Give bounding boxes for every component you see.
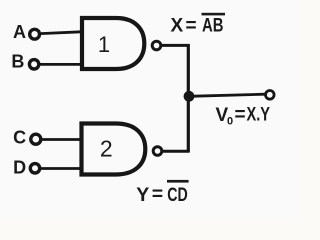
label X = AB-bar [171, 13, 226, 37]
wire A [40, 32, 81, 34]
svg-text:0: 0 [227, 116, 233, 128]
NAND gate U1 body [82, 18, 144, 69]
input terminal B [29, 60, 38, 69]
svg-text:CD: CD [167, 184, 188, 206]
label V0 = X.Y [216, 104, 271, 127]
NAND gate U2 body [82, 124, 146, 175]
output bubble of U1 [152, 41, 161, 50]
wire C [42, 138, 82, 141]
output wire to terminal [189, 94, 265, 96]
input terminal D [30, 164, 39, 173]
svg-text:1: 1 [98, 32, 110, 57]
junction node [184, 91, 195, 102]
output terminal [266, 91, 275, 100]
svg-text:B: B [11, 52, 24, 72]
wire B [40, 63, 82, 66]
wire from U2 bubble to vertical bus [163, 150, 190, 153]
svg-text:X: X [171, 16, 184, 37]
wire D [41, 167, 82, 170]
svg-text:D: D [13, 157, 26, 177]
wire from U1 bubble to vertical bus [162, 44, 190, 47]
svg-text:AB: AB [202, 16, 224, 37]
svg-text:C: C [13, 127, 26, 147]
input terminal A [30, 29, 40, 39]
input terminal C [31, 134, 41, 144]
label Y = CD-bar [136, 180, 188, 206]
svg-text:2: 2 [100, 136, 113, 162]
output bubble of U2 [153, 147, 162, 156]
svg-text:A: A [13, 22, 26, 42]
svg-text:=: = [152, 183, 163, 205]
svg-text:X.Y: X.Y [247, 104, 271, 125]
svg-text:Y: Y [136, 184, 149, 206]
svg-text:=: = [186, 16, 197, 37]
svg-text:=: = [235, 104, 246, 125]
vertical bus wire [187, 44, 190, 152]
